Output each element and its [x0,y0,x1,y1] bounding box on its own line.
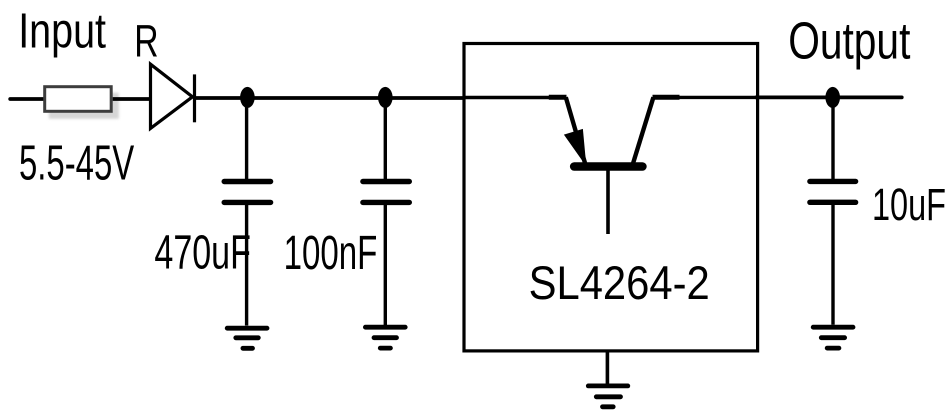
svg-text:100nF: 100nF [284,227,378,280]
svg-text:10uF: 10uF [872,179,946,230]
ground under C1 [227,328,267,348]
capacitor C2 plates [363,182,409,203]
svg-text:470uF: 470uF [154,226,251,280]
ground lead under box [606,350,610,385]
wire inside box right [678,96,756,99]
IC box U1 SL4264-2 [464,44,758,351]
transistor Q1 collector stub [549,95,567,100]
wire resistor to diode [113,97,151,101]
transistor Q1 base lead down [606,169,610,234]
transistor Q1 right leg [633,97,653,163]
ground under box [588,386,628,407]
label Input [18,3,106,58]
capacitor C3 plates [810,181,856,202]
capacitor C1 470uF lead top [245,98,248,179]
svg-text:Output: Output [788,12,911,70]
capacitor C1 plates [224,182,270,203]
resistor R [45,87,119,119]
wire diode to box [195,96,466,100]
wire box to output [756,96,902,100]
transistor Q1 right stub [653,95,680,100]
label SL4264-2 [529,256,710,309]
node junction dot 1 [240,87,255,108]
capacitor C3 lead bottom [831,205,834,325]
ground under C2 [365,327,405,348]
diode D1 anode triangle [151,64,193,128]
svg-text:Input: Input [18,3,106,58]
wire inside box left [464,96,550,99]
label 100nF [284,227,378,280]
label Output [788,12,911,70]
capacitor C1 lead bottom [245,205,248,326]
transistor Q1 left leg with emitter arrow [566,97,586,163]
label 5.5-45V [19,136,134,191]
wire input stub [10,97,44,101]
capacitor C2 lead bottom [384,205,387,325]
label 10uF [872,179,946,230]
capacitor C3 10uF lead top [831,98,834,179]
transistor Q1 base bar [574,162,642,171]
svg-text:SL4264-2: SL4264-2 [529,256,710,309]
label 470uF [154,226,251,280]
node junction dot 3 [825,87,840,108]
svg-text:R: R [134,16,158,67]
svg-text:5.5-45V: 5.5-45V [19,136,134,191]
label R [134,16,158,67]
capacitor C2 100nF lead top [384,98,387,179]
node junction dot 2 [378,87,393,108]
ground under C3 [813,327,853,348]
diode D1 cathode bar [193,74,196,122]
